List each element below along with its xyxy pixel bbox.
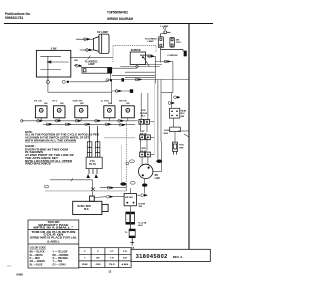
- svg-text:GY — GRAY: GY — GRAY: [53, 263, 67, 266]
- svg-text:J BOX: J BOX: [164, 130, 171, 132]
- svg-text:6498: 6498: [17, 272, 24, 276]
- svg-text:TH.E: TH.E: [179, 145, 185, 147]
- svg-text:RLY: RLY: [181, 113, 186, 115]
- svg-text:IS SHOWN: IS SHOWN: [25, 152, 44, 154]
- svg-text:TH.TH: TH.TH: [89, 164, 96, 166]
- svg-text:BK WH: BK WH: [125, 197, 133, 199]
- svg-text:WH: WH: [74, 60, 78, 62]
- svg-text:R — RED: R — RED: [30, 258, 40, 260]
- svg-text:P-R: P-R: [123, 251, 127, 253]
- svg-text:AT END POINT OF THE LINE OF: AT END POINT OF THE LINE OF: [25, 154, 75, 157]
- svg-text:Y — YELLOW: Y — YELLOW: [53, 252, 69, 254]
- svg-text:RD: RD: [155, 175, 159, 177]
- svg-text:T-R: T-R: [110, 257, 114, 259]
- svg-text:T — TAN: T — TAN: [53, 260, 63, 263]
- svg-text:O — ORANGE: O — ORANGE: [53, 257, 69, 260]
- svg-text:T3P500WFW2: T3P500WFW2: [107, 11, 128, 15]
- svg-text:BLK: BLK: [138, 225, 143, 227]
- svg-text:(LABEL): (LABEL): [47, 241, 59, 244]
- svg-text:W-BK: W-BK: [82, 264, 88, 266]
- svg-text:5995331781: 5995331781: [5, 16, 24, 20]
- svg-text:Publications No: Publications No: [5, 12, 30, 16]
- svg-text:TA: TA: [131, 246, 134, 249]
- svg-text:GRND WIR IS PLACD FOR LBL: GRND WIR IS PLACD FOR LBL: [30, 236, 78, 239]
- svg-text:318045802: 318045802: [136, 254, 168, 260]
- svg-text:AS SHOWN IN THE SWITCH LISTED: AS SHOWN IN THE SWITCH LISTED WHEEL OF S…: [25, 136, 90, 139]
- svg-text:GND: GND: [96, 264, 101, 266]
- svg-text:TL A SE: TL A SE: [138, 221, 147, 224]
- svg-text:NOTE LOCATION OF ALL UPPER: NOTE LOCATION OF ALL UPPER: [25, 160, 72, 163]
- svg-text:J-Y: J-Y: [110, 251, 114, 253]
- svg-text:COLR QN: COLR QN: [43, 235, 64, 237]
- svg-text:BK — BLACK: BK — BLACK: [30, 251, 45, 254]
- svg-text:W — WHITE: W — WHITE: [30, 255, 44, 257]
- svg-text:BR — BROWN: BR — BROWN: [53, 255, 69, 257]
- svg-text:P ARROW: P ARROW: [168, 54, 178, 57]
- svg-text:5 5W: 5 5W: [51, 47, 57, 50]
- svg-text:TH.T.: TH.T.: [52, 100, 58, 102]
- svg-text:12: 12: [108, 270, 111, 274]
- svg-text:HTR: HTR: [179, 147, 184, 149]
- svg-text:ALL IN THE POSITION OF THE CYC: ALL IN THE POSITION OF THE CYCLE IN POS …: [25, 134, 99, 137]
- svg-text:REV. A: REV. A: [173, 255, 183, 259]
- svg-text:BASE / BKR: BASE / BKR: [78, 205, 92, 208]
- svg-text:WARRANTY PAGE: WARRANTY PAGE: [38, 224, 69, 227]
- svg-text:LAMP: LAMP: [88, 63, 95, 66]
- svg-text:BK: BK: [96, 257, 100, 259]
- svg-text:CYC: CYC: [90, 161, 95, 163]
- svg-text:AND BALANCE: AND BALANCE: [25, 163, 52, 166]
- svg-text:A-BK4: A-BK4: [122, 263, 129, 266]
- svg-text:HEAT: HEAT: [181, 110, 187, 113]
- svg-text:115V: 115V: [176, 42, 182, 44]
- svg-text:P.S. ON: P.S. ON: [34, 100, 42, 102]
- svg-text:A. TH.E: A. TH.E: [101, 99, 109, 102]
- svg-text:WIRING DIAGRAM: WIRING DIAGRAM: [107, 17, 133, 21]
- svg-text:A-R: A-R: [123, 256, 127, 259]
- svg-text:LAM: LAM: [155, 177, 160, 180]
- svg-text:BLK: BLK: [84, 209, 89, 211]
- svg-text:GN — GREEN: GN — GREEN: [30, 261, 46, 263]
- svg-text:BL — BLUE: BL — BLUE: [30, 264, 43, 266]
- svg-text:TM-R: TM-R: [109, 264, 115, 266]
- svg-text:LEGEND :: LEGEND :: [25, 146, 36, 148]
- svg-text:COLOR CODE: COLOR CODE: [30, 247, 47, 250]
- svg-text:RLY: RLY: [141, 115, 146, 117]
- svg-text:WITH DRAWN IN ALL THE DRAWN: WITH DRAWN IN ALL THE DRAWN: [25, 139, 76, 142]
- svg-text:LAMP: LAMP: [148, 40, 155, 43]
- svg-text:EVERYTHING IN THIS DGM: EVERYTHING IN THIS DGM: [25, 149, 68, 151]
- svg-text:MFRS IN A SMALL ": MFRS IN A SMALL ": [33, 227, 73, 230]
- svg-text:WHT: WHT: [164, 133, 170, 135]
- svg-text:THE APPLIANCE SET: THE APPLIANCE SET: [25, 157, 59, 160]
- svg-text:NOTE:: NOTE:: [25, 132, 33, 134]
